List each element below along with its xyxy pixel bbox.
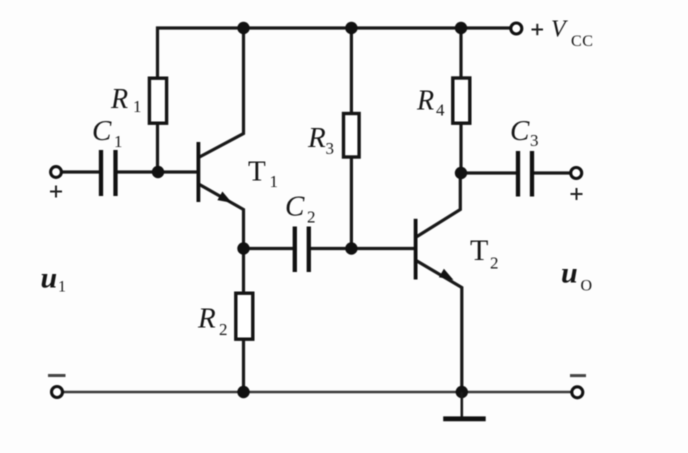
junction node R2 / ground rail — [237, 386, 249, 398]
wire R1 bottom to base node — [156, 125, 159, 172]
svg-text:2: 2 — [219, 320, 228, 339]
wire bottom ground rail — [64, 391, 570, 393]
wire R2 bottom to ground rail — [242, 340, 245, 393]
svg-text:O: O — [581, 278, 593, 295]
svg-text:C: C — [92, 115, 112, 147]
ground — [443, 392, 486, 419]
junction node top rail R3 — [345, 22, 357, 34]
svg-text:1: 1 — [133, 97, 142, 116]
wire C2 to T2 base — [309, 247, 415, 250]
minus overbar bottom left — [48, 374, 66, 377]
junction node R3 / T2 base — [345, 242, 357, 254]
terminal output — [571, 168, 582, 179]
svg-text:C: C — [510, 115, 530, 147]
svg-text:4: 4 — [436, 101, 445, 120]
resistor R1 — [149, 78, 166, 123]
junction node T2 emitter / ground rail — [456, 386, 468, 398]
wire R4 top — [459, 28, 462, 78]
svg-text:1: 1 — [58, 279, 66, 296]
wire R2 top — [242, 249, 245, 294]
terminal input — [51, 167, 62, 178]
svg-text:R: R — [197, 303, 216, 335]
wire top supply rail — [158, 28, 511, 77]
wire T1 collector to top rail — [200, 28, 244, 157]
terminal bottom left — [52, 387, 63, 398]
wire node to C3 — [461, 171, 516, 174]
svg-text:R: R — [416, 86, 434, 117]
terminal bottom right — [572, 387, 583, 398]
minus overbar bottom right — [570, 374, 586, 377]
svg-text:T: T — [248, 156, 266, 188]
svg-text:R: R — [110, 84, 128, 115]
plus mark output — [571, 188, 583, 200]
wire T2 collector to R4 — [417, 173, 460, 237]
svg-text:V: V — [551, 17, 568, 43]
svg-text:3: 3 — [326, 139, 335, 158]
wire C1 to T1 base — [117, 170, 198, 173]
svg-text:C: C — [285, 191, 305, 223]
junction node top rail R4 — [455, 22, 467, 34]
capacitor C1 plates — [101, 150, 116, 196]
svg-text:CC: CC — [571, 33, 594, 50]
junction node R4 / C3 / T2 collector — [455, 167, 467, 179]
resistor R3 — [344, 114, 360, 158]
svg-text:3: 3 — [530, 131, 539, 150]
plus mark Vcc — [532, 24, 544, 35]
resistor R4 — [453, 78, 470, 123]
svg-text:1: 1 — [114, 132, 123, 151]
capacitor C3 plates — [518, 151, 532, 197]
svg-text:u: u — [561, 257, 578, 290]
svg-text:u: u — [41, 262, 58, 295]
wire T1 emitter down to node — [200, 185, 244, 249]
plus mark input — [50, 186, 62, 198]
wire emitter node to C2 — [244, 247, 296, 250]
junction node top rail R1/T1 collector — [237, 22, 249, 34]
junction node T1 base / R1 — [152, 166, 164, 178]
svg-text:R: R — [307, 122, 326, 154]
svg-text:T: T — [470, 234, 488, 267]
wire R3 bottom to node — [350, 158, 353, 249]
junction node T1 emitter / R2 / C2 — [237, 242, 249, 254]
wire C3 to output terminal — [534, 171, 570, 174]
wire R3 top — [350, 28, 353, 113]
wire input terminal to C1 — [63, 170, 100, 173]
svg-text:1: 1 — [270, 172, 279, 191]
resistor R2 — [236, 293, 253, 339]
transistor T2 — [416, 219, 454, 280]
capacitor C2 plates — [295, 227, 309, 273]
wire R4 bottom to node — [459, 124, 462, 174]
wire T2 emitter down to ground rail — [417, 261, 462, 392]
transistor T1 — [198, 142, 232, 203]
svg-text:2: 2 — [490, 254, 499, 273]
svg-text:2: 2 — [307, 208, 316, 227]
terminal Vcc — [511, 23, 522, 34]
